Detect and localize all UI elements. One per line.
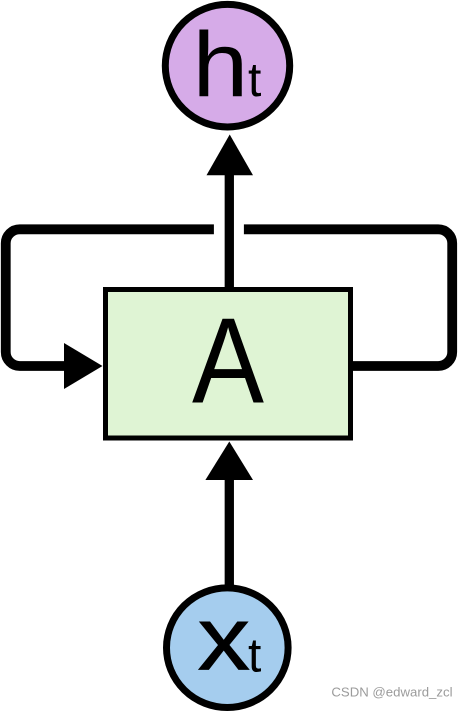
svg-text:t: t (248, 630, 261, 683)
arrowhead up to box (205, 442, 253, 481)
arrowhead up to h_t (207, 135, 254, 176)
wire loop (recurrent feedback) (6, 229, 452, 366)
svg-text:t: t (248, 54, 261, 107)
svg-text:x: x (197, 588, 250, 689)
svg-text:CSDN @edward_zcl: CSDN @edward_zcl (331, 685, 452, 700)
node A box (106, 290, 351, 439)
svg-text:A: A (192, 294, 264, 430)
white gap where output arrow crosses loop (214, 210, 244, 250)
node h_t circle (165, 4, 289, 127)
wire: x_t to box bottom (225, 475, 234, 588)
arrowhead into box left (64, 343, 103, 389)
wire: box top to h_t (225, 172, 234, 290)
node x_t circle (167, 588, 289, 708)
svg-text:h: h (193, 14, 249, 116)
